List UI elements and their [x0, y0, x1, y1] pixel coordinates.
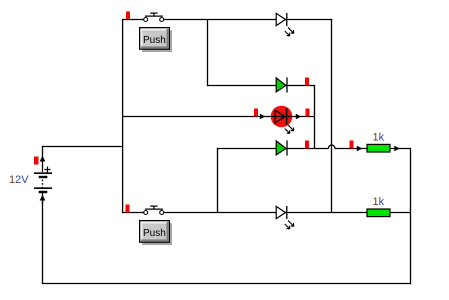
- diode D2 triangle: [276, 78, 286, 92]
- terminal tick left of R1 (red): [350, 141, 354, 149]
- switch SW2 plunger stem: [153, 206, 155, 209]
- switch SW2 plunger cap: [150, 205, 157, 207]
- wire inner vertical x314: [314, 85, 316, 149]
- LED D1 triangle: [276, 13, 285, 25]
- switch SW1 terminal tick (red): [126, 12, 130, 20]
- switch SW1 plunger stem: [153, 13, 155, 16]
- wire battery top horizontal: [42, 146, 123, 148]
- LED D5 cathode bar: [286, 206, 288, 219]
- switch SW2 moving bar: [145, 208, 163, 210]
- current arrow out of R1: [394, 146, 400, 152]
- LED D1 cathode bar: [286, 13, 288, 26]
- terminal tick left of D3 (red): [254, 109, 258, 117]
- switch SW1 right contact circle: [160, 18, 164, 22]
- diode D4 cathode bar: [286, 140, 288, 155]
- wire bottom row left (trunk to switch SW2): [122, 212, 144, 214]
- LED D5 (bottom, off): [276, 206, 294, 229]
- wire row4 horizontal right of hop: [335, 148, 411, 150]
- current arrow into R1: [357, 146, 363, 152]
- battery cell separator dotted line: [42, 180, 44, 188]
- resistor R2 1k (lower): [367, 209, 390, 217]
- diode D4 triangle: [276, 141, 286, 155]
- LED D5 emission arrow 1: [288, 221, 294, 227]
- LED D5 emission arrow 2: [285, 224, 290, 229]
- wire bottom return horizontal: [42, 283, 411, 285]
- LED D3 cathode bar: [286, 109, 288, 125]
- switch SW2 right contact circle: [160, 211, 164, 215]
- diode D2 (row 2, green): [276, 77, 309, 92]
- wire row2 horizontal (diode D2 row): [207, 85, 315, 87]
- diode D4 (row 4, green): [276, 140, 309, 155]
- LED D3 red glow circle: [271, 106, 293, 128]
- switch SW2 left contact circle: [144, 211, 148, 215]
- LED D1 emission arrow 1: [288, 28, 294, 34]
- svg-text:Push: Push: [143, 35, 166, 46]
- resistor R2 body: [367, 209, 390, 217]
- resistor R1 1k (upper): [350, 141, 400, 153]
- LED D1 emission arrow 2: [285, 31, 290, 36]
- LED D3 emission arrow 2: [285, 129, 290, 134]
- terminal tick right of D4 (red): [305, 141, 309, 149]
- wire branch vertical x207: [207, 19, 209, 86]
- diode D2 cathode bar: [286, 77, 288, 92]
- LED D3 triangle: [275, 110, 285, 123]
- terminal tick right of D3 (red): [306, 109, 310, 117]
- switch SW1 plunger cap: [150, 12, 157, 14]
- battery plus sign: [45, 167, 51, 173]
- svg-text:1k: 1k: [373, 132, 385, 144]
- terminal tick right of D2 (red): [305, 78, 309, 86]
- battery long plate 2: [34, 187, 52, 189]
- switch SW1 moving bar: [145, 15, 163, 17]
- svg-text:Push: Push: [143, 228, 166, 239]
- battery terminal tick (red): [34, 157, 39, 165]
- battery short thick plate 1: [39, 176, 48, 178]
- wire top row right (switch SW1 to corner): [164, 19, 332, 21]
- push switch SW1 (top, push-to-make): [126, 12, 164, 22]
- wire battery lower vertical: [42, 193, 44, 285]
- LED D3 emission arrow 1: [288, 125, 294, 131]
- wire top row left (node A to switch SW1): [122, 19, 144, 21]
- wire hop over x331 vertical: [329, 145, 335, 149]
- svg-text:1k: 1k: [373, 196, 385, 208]
- LED D1 (top, off): [276, 13, 294, 36]
- current arrow into D3: [260, 114, 266, 120]
- LED D5 triangle: [276, 206, 285, 218]
- switch SW2 terminal tick (red): [126, 205, 130, 213]
- battery long plate 1: [34, 172, 52, 174]
- push button actuator SW2: [140, 221, 172, 245]
- svg-text:12V: 12V: [9, 174, 29, 186]
- current arrow up (battery top): [40, 156, 46, 162]
- current arrow up (battery bottom): [40, 195, 46, 201]
- battery short thick plate 2: [39, 191, 48, 193]
- LED D3 (middle, lit red): [254, 106, 310, 134]
- wire long vertical x331 (top LED branch): [331, 19, 333, 213]
- wire right outer vertical: [410, 148, 412, 284]
- battery B1 12V: [34, 156, 52, 204]
- wire row4 horizontal left of hop: [217, 148, 329, 150]
- wire red LED row horizontal: [122, 116, 315, 118]
- wire battery upper vertical: [42, 146, 44, 172]
- push switch SW2 (bottom, push-to-make): [126, 205, 164, 215]
- wire left trunk vertical: [122, 19, 124, 213]
- switch SW1 left contact circle: [144, 18, 148, 22]
- wire bottom row right (switch SW2 to right vertical): [164, 212, 411, 214]
- current arrow out of D3: [296, 114, 302, 120]
- wire branch vertical x217: [217, 148, 219, 213]
- push button actuator SW1: [140, 28, 172, 52]
- resistor R1 body: [367, 144, 390, 152]
